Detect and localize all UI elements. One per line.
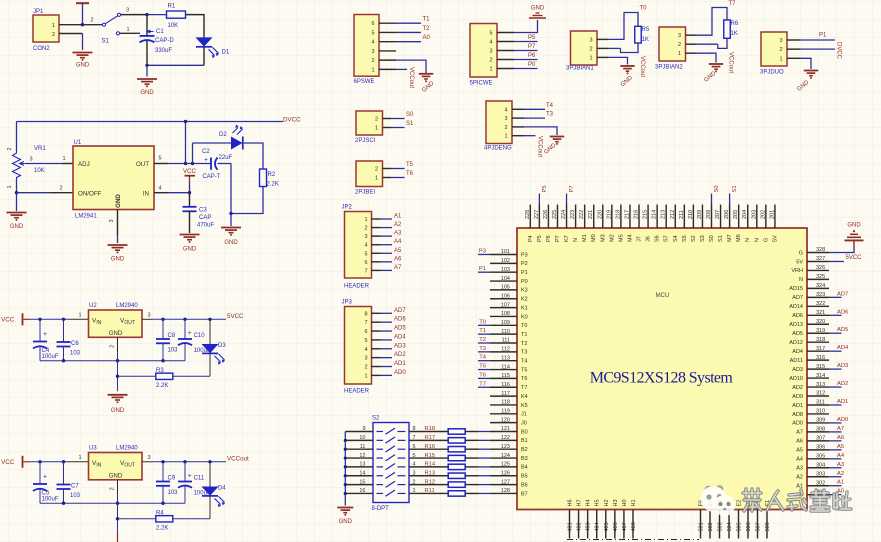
wire net AD1 — [829, 404, 842, 406]
svg-text:N: N — [754, 238, 760, 242]
junction — [208, 460, 211, 463]
wire node B to C1 — [146, 15, 148, 36]
svg-text:T5: T5 — [406, 162, 414, 168]
svg-text:H4: H4 — [586, 499, 592, 506]
svg-text:S4: S4 — [673, 235, 679, 242]
svg-text:R6: R6 — [731, 21, 739, 27]
svg-text:+: + — [43, 473, 47, 480]
svg-text:502: 502 — [708, 522, 714, 531]
wire pin6 — [396, 22, 421, 24]
svg-text:G: G — [763, 238, 769, 242]
junction node C — [145, 64, 148, 67]
svg-text:T6: T6 — [521, 376, 527, 382]
regulator U3 LM2940 — [89, 453, 143, 480]
junction — [344, 465, 347, 468]
wire U2 GND pin down — [117, 337, 119, 352]
svg-text:1: 1 — [779, 56, 782, 62]
MCU U4 MC9S12XS128 — [517, 228, 807, 510]
svg-text:1: 1 — [504, 134, 507, 140]
svg-text:1: 1 — [375, 126, 378, 132]
svg-text:GND: GND — [531, 6, 545, 12]
svg-text:S1: S1 — [732, 185, 738, 192]
svg-text:1: 1 — [78, 313, 81, 319]
wire R4 to LED — [173, 518, 210, 520]
svg-text:2: 2 — [504, 125, 507, 131]
svg-text:2PJBEI: 2PJBEI — [355, 190, 375, 196]
svg-text:6: 6 — [413, 444, 416, 450]
svg-text:2.2K: 2.2K — [156, 525, 168, 531]
wire VR1 wiper to U1 ADJ — [26, 163, 62, 165]
svg-text:3: 3 — [678, 33, 681, 39]
wire to MCU pin 121 — [465, 431, 478, 433]
svg-text:GND: GND — [109, 331, 123, 337]
svg-text:+: + — [188, 472, 192, 479]
wire net T7 — [478, 386, 490, 388]
svg-text:A2: A2 — [837, 471, 844, 477]
svg-text:S0: S0 — [714, 185, 720, 192]
svg-text:226: 226 — [543, 210, 549, 219]
svg-text:T5: T5 — [479, 364, 486, 370]
wire pin1 to ground — [696, 53, 716, 62]
junction — [344, 474, 347, 477]
svg-text:330uF: 330uF — [155, 48, 172, 54]
svg-text:AD0: AD0 — [837, 417, 848, 423]
svg-text:10K: 10K — [34, 168, 45, 174]
wire pin2 — [514, 59, 538, 61]
svg-text:314: 314 — [816, 373, 825, 379]
wire S2 pin 14 — [345, 475, 373, 477]
wire net P5 — [538, 194, 540, 205]
svg-text:M5: M5 — [618, 234, 624, 242]
svg-text:126: 126 — [501, 470, 510, 476]
wire VR1 to ground — [16, 193, 18, 211]
svg-text:J0: J0 — [521, 420, 527, 426]
svg-text:1: 1 — [371, 67, 374, 73]
resistor R5 — [635, 26, 642, 43]
junction — [116, 517, 119, 520]
wire to switch common — [84, 24, 103, 26]
svg-text:M7: M7 — [727, 234, 733, 242]
svg-text:R18: R18 — [425, 426, 436, 432]
svg-text:T4: T4 — [521, 359, 527, 365]
svg-text:T2: T2 — [479, 337, 486, 343]
junction — [38, 460, 41, 463]
ground — [7, 212, 27, 214]
wire U1 IN — [154, 192, 168, 194]
junction — [188, 191, 191, 194]
svg-text:CON2: CON2 — [33, 46, 50, 52]
svg-text:C9: C9 — [168, 476, 176, 482]
regulator U2 LM2940 — [89, 310, 143, 337]
wire pin2 to ground — [524, 127, 557, 135]
wire to ground (cut off) — [117, 533, 119, 542]
svg-text:321: 321 — [816, 310, 825, 316]
svg-text:204: 204 — [742, 210, 748, 219]
svg-text:6: 6 — [364, 329, 367, 335]
svg-text:6PSWE: 6PSWE — [354, 79, 375, 85]
svg-text:AD7: AD7 — [394, 308, 406, 314]
svg-text:S1: S1 — [102, 39, 110, 45]
svg-text:AD2: AD2 — [837, 381, 848, 387]
svg-text:E2: E2 — [737, 500, 743, 507]
svg-text:HEADER: HEADER — [344, 284, 370, 290]
svg-text:T5: T5 — [521, 367, 527, 373]
MCU top pins 201-228 — [529, 205, 531, 229]
wire pin5 to ground above — [514, 20, 538, 33]
svg-text:1: 1 — [52, 23, 55, 29]
svg-text:H6: H6 — [568, 499, 574, 506]
svg-text:205: 205 — [733, 210, 739, 219]
svg-text:P7: P7 — [555, 235, 561, 242]
svg-text:T4: T4 — [479, 355, 487, 361]
ground — [137, 78, 157, 80]
svg-text:A7: A7 — [837, 426, 844, 432]
svg-text:5VCC: 5VCC — [846, 255, 863, 261]
capacitor C3 — [183, 206, 197, 208]
svg-text:4: 4 — [413, 462, 416, 468]
svg-text:319: 319 — [816, 328, 825, 334]
svg-text:K7: K7 — [564, 235, 570, 242]
wire pin1 — [524, 135, 536, 137]
svg-text:5VCC: 5VCC — [227, 313, 244, 320]
svg-text:310: 310 — [816, 409, 825, 415]
junction — [183, 460, 186, 463]
svg-text:T3: T3 — [479, 346, 486, 352]
switch S1 — [102, 23, 105, 26]
svg-text:C10: C10 — [194, 333, 206, 339]
wire to ground — [230, 214, 232, 227]
svg-text:1: 1 — [375, 176, 378, 182]
svg-text:M2: M2 — [609, 234, 615, 242]
svg-text:MC9S12XS128 System: MC9S12XS128 System — [590, 370, 734, 387]
svg-text:100uF: 100uF — [42, 354, 59, 360]
LED D2 — [231, 137, 243, 150]
svg-text:217: 217 — [624, 210, 630, 219]
junction — [116, 502, 119, 505]
svg-text:2: 2 — [52, 32, 55, 38]
wire to MCU pin 127 — [465, 484, 478, 486]
junction — [161, 318, 164, 321]
svg-text:AD5: AD5 — [792, 331, 803, 337]
resistor R4 — [118, 518, 156, 520]
svg-text:AD7: AD7 — [837, 291, 848, 297]
wire D1 cathode down — [203, 47, 205, 65]
svg-text:T4: T4 — [546, 103, 554, 109]
svg-text:5: 5 — [364, 338, 367, 344]
svg-text:127: 127 — [501, 479, 510, 485]
svg-text:215: 215 — [643, 210, 649, 219]
resistor R2 — [260, 169, 267, 187]
svg-text:470uF: 470uF — [197, 223, 214, 229]
svg-text:MCU: MCU — [656, 293, 670, 299]
svg-text:N: N — [573, 238, 579, 242]
svg-text:2: 2 — [110, 487, 116, 490]
svg-text:VCCout: VCCout — [537, 136, 543, 157]
MCU right pins 301-328 — [807, 252, 829, 254]
wire S2 pin 11 — [345, 448, 373, 450]
connector JP1 — [33, 15, 59, 42]
svg-text:M1: M1 — [582, 234, 588, 242]
svg-text:111: 111 — [502, 338, 510, 344]
svg-text:503: 503 — [718, 522, 724, 531]
wire pin1 — [396, 68, 407, 70]
svg-text:315: 315 — [816, 364, 825, 370]
svg-text:1: 1 — [678, 51, 681, 57]
svg-text:5: 5 — [158, 156, 161, 162]
svg-text:10: 10 — [359, 435, 365, 441]
ground — [108, 394, 128, 396]
wire net A0 — [829, 494, 842, 496]
svg-text:H2: H2 — [604, 499, 610, 506]
svg-text:123: 123 — [501, 444, 510, 450]
svg-text:JP3: JP3 — [342, 300, 353, 306]
junction — [116, 359, 119, 362]
svg-text:B4: B4 — [521, 465, 528, 471]
svg-text:103: 103 — [168, 347, 179, 353]
svg-text:1K: 1K — [731, 31, 738, 37]
wire R3 to LED — [173, 375, 210, 377]
wire C1 to ground — [146, 40, 148, 65]
wire pin4 — [396, 41, 421, 43]
svg-text:8: 8 — [413, 426, 416, 432]
svg-text:A6: A6 — [796, 439, 803, 445]
capacitor C6 — [63, 319, 65, 342]
svg-text:P3: P3 — [479, 249, 486, 255]
svg-text:14: 14 — [359, 470, 365, 476]
capacitor C1 — [140, 35, 155, 37]
resistor R3 — [118, 375, 156, 377]
svg-text:206: 206 — [724, 210, 730, 219]
svg-text:228: 228 — [525, 210, 531, 219]
wire JP3 pin 7 — [372, 321, 381, 323]
svg-text:LM2940: LM2940 — [116, 303, 138, 309]
watermark text — [743, 489, 761, 511]
svg-text:3PJBIAN2: 3PJBIAN2 — [655, 65, 683, 71]
svg-text:K5: K5 — [521, 403, 528, 409]
wire D2 cathode to R2 — [243, 143, 263, 169]
svg-text:221: 221 — [588, 210, 594, 219]
capacitor C10 — [184, 319, 186, 339]
power port VCC — [189, 183, 191, 193]
svg-text:8: 8 — [364, 311, 367, 317]
svg-text:K2: K2 — [521, 297, 528, 303]
svg-text:P0: P0 — [521, 279, 528, 285]
svg-text:3: 3 — [147, 455, 150, 461]
junction — [15, 191, 18, 194]
svg-text:GND: GND — [847, 223, 861, 229]
svg-text:R17: R17 — [425, 435, 436, 441]
svg-text:2: 2 — [364, 365, 367, 371]
svg-text:R5: R5 — [642, 27, 650, 33]
svg-text:3: 3 — [504, 116, 507, 122]
wire to MCU pin 122 — [465, 439, 478, 441]
svg-text:P3: P3 — [521, 252, 528, 258]
svg-text:211: 211 — [679, 210, 685, 219]
svg-text:506: 506 — [746, 522, 752, 531]
svg-text:15: 15 — [359, 479, 365, 485]
svg-text:T7: T7 — [521, 385, 527, 391]
svg-text:S0: S0 — [406, 112, 414, 118]
svg-text:124: 124 — [501, 453, 510, 459]
MCU bottom pins 501-508 — [700, 510, 702, 539]
svg-text:302: 302 — [816, 480, 825, 486]
connector JP4 6PSWE — [354, 15, 379, 77]
wire JP1 pin1 — [59, 24, 83, 26]
svg-text:S2: S2 — [691, 235, 697, 242]
capacitor C9 — [162, 462, 164, 482]
wire bottom return — [147, 64, 204, 66]
svg-text:118: 118 — [501, 400, 510, 406]
svg-text:3: 3 — [589, 37, 592, 43]
ground — [419, 73, 433, 75]
svg-text:H1: H1 — [631, 499, 637, 506]
resistor R6 — [724, 20, 731, 38]
wire net P1 — [478, 271, 490, 273]
wire LED cathode — [209, 496, 211, 519]
wire net A5 — [829, 449, 842, 451]
svg-text:M6: M6 — [736, 234, 742, 242]
ground — [73, 52, 93, 54]
ground — [180, 234, 200, 236]
junction — [161, 502, 164, 505]
svg-text:1: 1 — [589, 55, 592, 61]
svg-text:326: 326 — [816, 265, 825, 271]
svg-text:2.2K: 2.2K — [267, 182, 279, 188]
svg-text:105: 105 — [501, 285, 510, 291]
wire switch throw3 to node B — [121, 14, 148, 16]
svg-text:C3: C3 — [199, 208, 207, 214]
wire pin1 — [391, 177, 405, 179]
svg-text:R2: R2 — [268, 172, 276, 178]
svg-text:323: 323 — [816, 292, 825, 298]
wire rail down left side — [16, 122, 18, 152]
svg-text:R12: R12 — [425, 479, 436, 485]
svg-text:AD10: AD10 — [789, 376, 803, 382]
capacitor C5 — [39, 462, 41, 484]
wire S2 pin 16 — [345, 492, 373, 494]
svg-text:AD0: AD0 — [792, 421, 803, 427]
svg-text:2: 2 — [375, 167, 378, 173]
svg-text:AD6: AD6 — [792, 313, 803, 319]
svg-text:U1: U1 — [74, 140, 82, 146]
svg-text:R13: R13 — [425, 470, 436, 476]
svg-text:R4: R4 — [156, 510, 164, 516]
svg-text:305: 305 — [816, 454, 825, 460]
svg-text:HEADER: HEADER — [344, 389, 370, 395]
svg-text:D4: D4 — [218, 486, 226, 492]
wire net AD4 — [829, 350, 842, 352]
svg-text:222: 222 — [579, 210, 585, 219]
svg-text:B6: B6 — [521, 482, 528, 488]
svg-text:324: 324 — [816, 283, 825, 289]
svg-text:225: 225 — [552, 210, 558, 219]
svg-text:AD3: AD3 — [792, 367, 803, 373]
svg-text:A0: A0 — [423, 35, 431, 41]
svg-text:P5: P5 — [528, 35, 536, 41]
wire net T1 — [478, 333, 490, 335]
wire bottom bus (cut off) — [567, 539, 699, 541]
wire pin3 to R5 top — [608, 13, 638, 40]
wire JP3 pin 6 — [372, 330, 381, 332]
svg-text:VCCout: VCCout — [227, 456, 249, 463]
svg-text:AD11: AD11 — [790, 358, 803, 364]
svg-text:AD1: AD1 — [394, 361, 406, 367]
svg-text:D1: D1 — [222, 50, 230, 56]
svg-text:P6: P6 — [546, 235, 552, 242]
svg-text:313: 313 — [816, 382, 825, 388]
svg-text:AD4: AD4 — [792, 349, 803, 355]
ground — [108, 244, 128, 246]
svg-text:4: 4 — [371, 40, 374, 46]
svg-text:406: 406 — [613, 522, 619, 531]
wire JP3 pin 8 — [372, 312, 381, 314]
svg-text:VCCout: VCCout — [408, 67, 414, 88]
svg-text:AD1: AD1 — [837, 399, 848, 405]
capacitor C11 — [184, 462, 186, 482]
svg-text:109: 109 — [501, 320, 510, 326]
junction — [62, 359, 65, 362]
svg-text:128: 128 — [501, 488, 510, 494]
wire net AD7 — [829, 296, 842, 298]
wire net T0 — [478, 324, 490, 326]
connector JP5 5PICWE — [470, 24, 497, 78]
svg-text:404: 404 — [595, 522, 601, 531]
wire C3 to ground — [189, 211, 191, 233]
svg-text:3: 3 — [109, 219, 115, 222]
svg-text:5: 5 — [364, 251, 367, 257]
svg-text:208: 208 — [706, 210, 712, 219]
svg-text:318: 318 — [816, 337, 825, 343]
svg-text:M0: M0 — [591, 234, 597, 242]
svg-text:GND: GND — [183, 247, 197, 253]
ground — [709, 63, 723, 65]
svg-text:P1: P1 — [479, 266, 486, 272]
svg-text:J6: J6 — [646, 236, 652, 242]
svg-text:505: 505 — [737, 522, 743, 531]
svg-text:1: 1 — [62, 156, 65, 162]
svg-text:1: 1 — [126, 27, 129, 33]
svg-text:S2: S2 — [372, 416, 380, 422]
svg-text:210: 210 — [688, 210, 694, 219]
wire JP3 pin 4 — [372, 348, 381, 350]
svg-text:103: 103 — [70, 350, 81, 356]
svg-text:3: 3 — [364, 234, 367, 240]
svg-text:121: 121 — [501, 426, 510, 432]
junction — [161, 359, 164, 362]
svg-text:ON/OFF: ON/OFF — [78, 191, 102, 198]
svg-text:N: N — [745, 238, 751, 242]
svg-text:2: 2 — [59, 186, 62, 192]
svg-text:216: 216 — [634, 210, 640, 219]
ground — [337, 507, 353, 509]
svg-text:6: 6 — [364, 260, 367, 266]
svg-text:104: 104 — [501, 276, 510, 282]
svg-text:220: 220 — [597, 210, 603, 219]
svg-text:B2: B2 — [521, 447, 528, 453]
svg-text:A5: A5 — [796, 448, 803, 454]
svg-text:J7: J7 — [637, 236, 643, 242]
svg-text:S6: S6 — [655, 235, 661, 242]
svg-text:322: 322 — [816, 301, 825, 307]
svg-text:224: 224 — [561, 210, 567, 219]
svg-text:3: 3 — [126, 8, 129, 14]
svg-text:312: 312 — [816, 391, 825, 397]
svg-text:2: 2 — [779, 47, 782, 53]
svg-text:507: 507 — [756, 522, 762, 531]
wire S2 pin 1 to resistor — [409, 492, 448, 494]
svg-text:T3: T3 — [546, 112, 554, 118]
svg-text:AD7: AD7 — [792, 295, 803, 301]
